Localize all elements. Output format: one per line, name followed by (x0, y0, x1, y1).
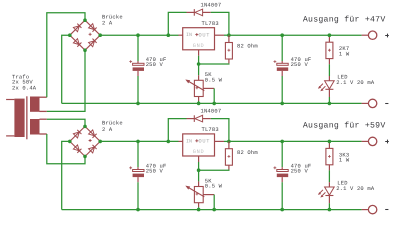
svg-text:82 Ohm: 82 Ohm (237, 149, 258, 156)
label C3 value (146, 162, 167, 174)
junction wiper bottom section 2 (212, 208, 216, 212)
potentiometer 5K section 1 (186, 75, 214, 101)
wire pot bottom to negative rail section 2 (198, 207, 200, 209)
svg-text:1 W: 1 W (339, 50, 350, 57)
wire riser to diode D2 anode side (168, 119, 186, 142)
svg-text:1N4007: 1N4007 (201, 1, 222, 8)
wire GND node to resistor bottom section 2 (199, 169, 229, 172)
label plus sign section 1 (385, 34, 389, 38)
svg-text:250 V: 250 V (146, 61, 164, 68)
capacitor C4 470uF output (274, 141, 289, 209)
diode D1 1N4007 (187, 9, 211, 16)
resistor R 82 Ohm section 2 (225, 141, 232, 169)
label pot 5K section 1 (205, 71, 223, 83)
svg-text:2 A: 2 A (102, 126, 113, 133)
wire positive rail left of regulator section 2 (100, 140, 178, 142)
junction pot bottom section 2 (197, 208, 201, 212)
capacitor C3 470uF (129, 141, 144, 209)
wire pot wiper to negative rail section 2 (213, 195, 215, 210)
label bridge B2 value (102, 120, 123, 133)
wire negative rail section 1 (62, 102, 362, 104)
wire resistor to LED section 2 (328, 170, 330, 182)
junction bridge B2 left node (68, 140, 72, 144)
wire resistor to LED section 1 (328, 64, 330, 76)
svg-text:OUT: OUT (199, 32, 211, 38)
junction diode riser left section 1 (167, 33, 171, 37)
label C4 value (291, 162, 312, 174)
label 2K7 value (339, 45, 350, 57)
wire LED to negative rail section 1 (328, 97, 330, 103)
svg-text:IN: IN (186, 138, 192, 144)
svg-text:Ausgang für +59V: Ausgang für +59V (303, 122, 386, 131)
svg-text:GND: GND (193, 43, 205, 49)
wire positive rail right of regulator section 2 (229, 140, 362, 142)
LED D4 section 2 (318, 182, 334, 203)
wire secondary S2b to bridge B2 AC bottom (47, 134, 85, 164)
junction bridge B1 right node (98, 33, 102, 37)
svg-text:GND: GND (193, 149, 205, 155)
capacitor C2 470uF output (274, 35, 289, 103)
wire OUT pin to junction section 1 (224, 34, 229, 36)
node output plus terminal +47V (362, 31, 377, 39)
junction GND node section 2 (197, 168, 201, 172)
wire GND pin down section 2 (198, 162, 200, 170)
svg-text:TL783: TL783 (202, 126, 219, 133)
junction C4 top (280, 140, 284, 144)
junction C2 top (280, 33, 284, 37)
junction GND node section 1 (197, 62, 201, 66)
wire pot bottom to negative rail section 1 (198, 101, 200, 103)
junction bridge B2 top node (83, 125, 87, 129)
node output minus terminal section 1 (362, 99, 377, 107)
svg-text:Ausgang für +47V: Ausgang für +47V (303, 15, 386, 24)
junction 2K7 top (328, 33, 332, 37)
label C1 value (146, 56, 167, 68)
wire secondary S1a to bridge B1 AC top (47, 13, 85, 97)
junction bridge B2 bottom node (83, 155, 87, 159)
label 3K3 value (339, 151, 350, 163)
svg-text:OUT: OUT (199, 139, 211, 145)
label C2 value (291, 56, 312, 68)
junction diode riser left section 2 (167, 140, 171, 144)
svg-text:2 A: 2 A (102, 20, 113, 27)
svg-text:250 V: 250 V (291, 61, 309, 68)
wire negative rail section 2 (62, 209, 362, 211)
junction C1 top (136, 33, 140, 37)
wire GND pin down section 1 (198, 56, 200, 64)
potentiometer 5K section 2 (186, 181, 214, 207)
junction C4 bottom (280, 208, 284, 212)
wire positive rail left of regulator section 1 (100, 34, 178, 36)
diode D2 1N4007 (187, 115, 211, 122)
label minus sign section 2 (385, 209, 388, 211)
junction wiper bottom section 1 (212, 102, 216, 106)
svg-text:TL783: TL783 (202, 20, 219, 27)
LED D3 section 1 (318, 76, 334, 97)
svg-text:250 V: 250 V (291, 167, 309, 174)
wire diode D2 cathode to OUT junction (211, 119, 229, 142)
junction C3 bottom (136, 208, 140, 212)
label pot 5K section 2 (205, 177, 223, 189)
label bridge B1 value (102, 13, 123, 26)
junction C3 top (136, 140, 140, 144)
resistor R 82 Ohm section 1 (225, 35, 232, 63)
label LED value section 2 (336, 180, 375, 193)
svg-text:2x 0.4A: 2x 0.4A (12, 84, 37, 91)
wire GND node to resistor bottom section 1 (199, 62, 229, 65)
label minus sign section 1 (385, 103, 388, 105)
wire diode D1 cathode to OUT junction (211, 12, 229, 35)
junction 3K3 top (328, 140, 332, 144)
svg-text:2.1 V 20 mA: 2.1 V 20 mA (336, 185, 375, 192)
junction OUT node section 1 (227, 33, 231, 37)
label transformer TR1 value (12, 73, 37, 91)
capacitor C1 470uF (129, 35, 144, 103)
junction pot bottom section 1 (197, 102, 201, 106)
bridge rectifier B1 (70, 20, 100, 50)
wire bridge B2 minus to negative rail (62, 141, 70, 209)
node output minus terminal section 2 (362, 205, 377, 213)
wire riser to diode D1 anode side (168, 12, 186, 35)
junction C2 bottom (280, 102, 284, 106)
wire pot wiper to negative rail section 1 (213, 88, 215, 103)
junction OUT node section 2 (227, 140, 231, 144)
svg-text:0.5 W: 0.5 W (205, 183, 223, 190)
junction bridge B1 left node (68, 33, 72, 37)
svg-text:250 V: 250 V (146, 167, 164, 174)
wire secondary S1b to bridge B1 AC bottom (47, 50, 85, 111)
wire GND node to pot section 1 (198, 64, 200, 75)
node output plus terminal +59V (362, 137, 377, 145)
wire GND node to pot section 2 (198, 170, 200, 181)
junction bridge B2 right node (98, 140, 102, 144)
svg-text:1 W: 1 W (339, 157, 350, 164)
resistor 3K3 section 2 (326, 141, 333, 170)
junction LED bottom section 2 (328, 208, 332, 212)
junction LED bottom section 1 (328, 102, 332, 106)
wire LED to negative rail section 2 (328, 203, 330, 209)
svg-text:1N4007: 1N4007 (201, 108, 222, 115)
resistor 2K7 section 1 (326, 35, 333, 64)
wire bridge B1 minus to negative rail (62, 35, 70, 103)
bridge rectifier B2 (70, 126, 100, 156)
junction bridge B1 bottom node (83, 48, 87, 52)
wire secondary S2a to bridge B2 AC top (47, 119, 85, 126)
label LED value section 1 (336, 73, 375, 86)
svg-text:0.5 W: 0.5 W (205, 76, 223, 83)
op-amp regulator U1 TL783 (179, 28, 225, 56)
junction bridge B1 top node (83, 18, 87, 22)
label plus sign section 2 (385, 140, 389, 144)
wire positive rail right of regulator section 1 (229, 34, 362, 36)
junction C1 bottom (136, 102, 140, 106)
op-amp regulator U2 TL783 (179, 134, 225, 162)
svg-text:82 Ohm: 82 Ohm (237, 43, 258, 50)
wire OUT pin to junction section 2 (224, 140, 229, 142)
svg-text:IN: IN (186, 32, 192, 38)
svg-text:2.1 V 20 mA: 2.1 V 20 mA (336, 79, 375, 86)
transformer TR1 (6, 96, 47, 139)
